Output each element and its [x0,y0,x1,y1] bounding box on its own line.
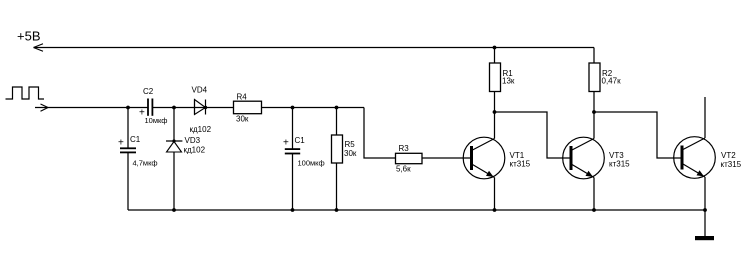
node junction dot C1-left [126,106,130,110]
svg-text:+: + [118,138,124,149]
wire C1-right branch upper [292,108,294,151]
node junction dot bottom VT2 emitter [703,208,707,212]
node junction dot bottom R5 [335,208,339,212]
node junction dot VT1 collector [493,110,497,114]
svg-text:кт315: кт315 [721,160,742,169]
wire coupling VT1 to VT3 [495,112,570,158]
wire R2 bottom to VT3 collector [593,92,595,139]
wire VD3 branch upper [173,108,175,142]
wire VT2 collector output [704,97,706,138]
svg-text:4,7мкф: 4,7мкф [133,159,158,168]
svg-text:VD4: VD4 [192,86,208,95]
capacitor C2 [148,99,152,116]
svg-text:C1: C1 [130,135,141,144]
svg-text:30к: 30к [344,149,357,158]
svg-text:100мкф: 100мкф [298,159,325,168]
svg-text:кд102: кд102 [190,125,212,134]
svg-text:кт315: кт315 [510,160,531,169]
svg-text:R4: R4 [237,93,248,102]
diode VD4 [195,100,208,115]
svg-text:0,47к: 0,47к [602,77,622,86]
diode VD3 [166,139,182,152]
node junction dot bottom VT3 emitter [592,208,596,212]
wire VT3 emitter down [593,178,595,211]
svg-text:13к: 13к [502,77,515,86]
wire C1-left branch upper [127,108,129,149]
wire R5 branch upper [336,108,338,136]
svg-text:+: + [283,138,289,149]
wire +5V top rail [34,47,595,49]
svg-text:R3: R3 [399,144,410,153]
wire R2 top lead [593,48,595,64]
node junction dot R1 top [493,46,497,50]
svg-text:+5В: +5В [17,29,41,44]
wire bottom rail [128,209,705,211]
wire R1 top lead [494,48,496,64]
wire mid rail [152,107,364,109]
wire input line [35,107,148,109]
svg-text:VT2: VT2 [721,151,736,160]
node junction dot VT3 collector [592,110,596,114]
wire R5 branch lower [336,163,338,210]
svg-text:кд102: кд102 [184,146,206,155]
capacitor C1 left [120,148,136,152]
resistor R4 [234,101,262,114]
resistor R2 [589,63,600,92]
wire coupling VT3 to VT2 [594,112,681,158]
wire VT2 emitter down [704,177,706,210]
svg-text:C2: C2 [143,87,154,96]
node input square-wave symbol [6,87,45,99]
transistor VT3 [563,137,605,179]
node +5V arrowhead [34,44,44,52]
wire ground lead [704,210,706,236]
node junction dot bottom VD3 [172,208,176,212]
svg-text:кт315: кт315 [609,160,630,169]
resistor R5 [332,135,343,163]
node input arrowhead [41,104,49,111]
wire C1-left branch lower [127,153,129,210]
ground [695,236,714,240]
wire C1-right branch lower [292,154,294,210]
svg-text:VD3: VD3 [185,136,201,145]
node junction dot bottom C1-right [291,208,295,212]
wire signal corner down [364,108,396,159]
svg-text:10мкф: 10мкф [145,116,168,125]
node junction dot C1-right [291,106,295,110]
svg-text:5,6к: 5,6к [396,165,411,174]
resistor R1 [490,63,501,92]
node junction dot R5 [335,106,339,110]
resistor R3 [396,153,423,163]
wire VT1 emitter down [494,178,496,211]
svg-text:R5: R5 [345,140,356,149]
svg-text:C1: C1 [295,136,306,145]
node junction dot VD3 [172,106,176,110]
transistor VT2 [674,137,716,179]
node junction dot bottom VT1 emitter [493,208,497,212]
wire VD3 branch lower [173,152,175,210]
transistor VT1 [463,137,505,179]
capacitor C1 right [285,149,300,153]
wire R1 bottom to VT1 collector [494,92,496,139]
svg-text:30к: 30к [236,115,249,124]
wire R3 to VT1 base [422,157,470,159]
